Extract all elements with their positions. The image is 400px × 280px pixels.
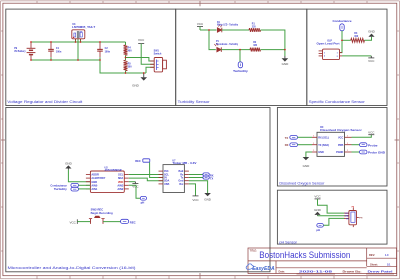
svg-text:GND: GND xyxy=(345,216,350,218)
wire branch down to photodiode row xyxy=(209,30,216,50)
svg-text:BostonHacks Submission: BostonHacks Submission xyxy=(259,250,350,260)
svg-text:2: 2 xyxy=(337,56,338,58)
ground symbol (block 6 right) xyxy=(189,181,212,202)
power flag VCC (block 1) xyxy=(138,38,145,43)
svg-text:GND: GND xyxy=(314,208,322,212)
wire OLP to VCC (block 3) xyxy=(342,55,371,57)
svg-text:GND: GND xyxy=(204,197,212,201)
wire divider tap to switch pin 1 xyxy=(126,58,155,62)
svg-text:USB: USB xyxy=(164,183,169,186)
svg-text:Conductance: Conductance xyxy=(50,183,67,187)
revision REV 1.0 xyxy=(369,253,389,257)
wire node to R3 xyxy=(342,39,351,41)
svg-text:PGND: PGND xyxy=(336,151,343,154)
voltage regulator U3 LM78M05_TA3-T xyxy=(72,23,96,60)
wire VCC to switch pin 2 xyxy=(141,44,154,65)
svg-text:pH: pH xyxy=(316,228,320,232)
svg-text:GND: GND xyxy=(303,164,311,168)
svg-text:Turbidity: Turbidity xyxy=(233,69,248,73)
net flag pH (block 6) xyxy=(129,185,147,204)
ground symbol (block 1) xyxy=(132,73,147,88)
section box: Turbidity Sensor xyxy=(176,9,307,105)
LED D1 White LED - Turbidity xyxy=(217,22,239,33)
wire bottom rail (block 1) xyxy=(31,59,100,61)
svg-text:GND: GND xyxy=(368,29,376,33)
title text BostonHacks Submission xyxy=(250,249,351,260)
wire VCC to pushbutton xyxy=(77,221,90,223)
section box: Voltage Regulator and Divider Circuit xyxy=(6,9,176,105)
connector OLP Open Lead Port xyxy=(317,41,343,60)
svg-text:AIN0: AIN0 xyxy=(91,183,97,187)
svg-text:Probe: Probe xyxy=(368,143,378,147)
svg-text:Open Lead Port: Open Lead Port xyxy=(317,42,340,45)
svg-text:GND: GND xyxy=(282,62,290,66)
battery P9 9V Battery xyxy=(14,42,35,60)
ADC U2 ADS1115IDGSR xyxy=(86,167,129,193)
svg-text:400: 400 xyxy=(128,50,133,53)
svg-text:ALERT/RDY: ALERT/RDY xyxy=(91,176,105,180)
pushbutton SW2 Begin Recording xyxy=(89,209,113,224)
power flag VCC (block 6 bottom, rotated) xyxy=(69,219,77,224)
wire GND to pH connector pin 2 xyxy=(318,215,345,217)
svg-text:REC: REC xyxy=(135,159,141,163)
net flag TX (block 4) xyxy=(285,136,312,140)
section box: pH Sensor xyxy=(277,190,387,244)
net flag RX (block 6) xyxy=(189,173,214,177)
resistor R2 330 xyxy=(250,42,261,51)
switch SW1 xyxy=(150,50,166,72)
wire C2 bottom to lower rail xyxy=(100,60,146,73)
svg-text:SCL: SCL xyxy=(118,173,124,177)
junction dot conductance node xyxy=(341,39,343,41)
svg-text:PRB: PRB xyxy=(338,144,343,147)
power flag VCC (block 4) xyxy=(352,130,376,137)
ground symbol (block 4) xyxy=(303,152,312,168)
ground symbol (block 6 top-left) xyxy=(65,162,73,170)
svg-text:Turbidity Sensor: Turbidity Sensor xyxy=(178,100,211,104)
junction dots (block 2) xyxy=(208,29,286,50)
svg-text:OLP: OLP xyxy=(327,41,332,43)
svg-text:REC: REC xyxy=(130,220,136,224)
wire conductance node down to OLP pin xyxy=(340,40,343,52)
wire top rail 5V/9V (block 1) xyxy=(31,41,126,43)
svg-text:2020-11-08: 2020-11-08 xyxy=(299,269,333,273)
net flag Turbidity xyxy=(233,50,248,73)
svg-text:VCC: VCC xyxy=(314,195,321,199)
svg-text:VCC: VCC xyxy=(138,38,145,42)
svg-text:AIN1: AIN1 xyxy=(91,187,97,191)
svg-text:TITLE:: TITLE: xyxy=(250,249,258,252)
wire VCC to pH connector pin 1 xyxy=(318,199,345,213)
svg-text:Rst: Rst xyxy=(179,183,183,186)
svg-text:SDA: SDA xyxy=(118,176,124,180)
svg-text:Voltage Regulator and Divider: Voltage Regulator and Divider Circuit xyxy=(7,100,82,104)
svg-text:Tinker MB - 3.3V: Tinker MB - 3.3V xyxy=(172,162,197,165)
svg-text:9V Battery: 9V Battery xyxy=(14,50,26,53)
svg-text:300: 300 xyxy=(128,66,133,69)
net flag Conductance (block 3) xyxy=(333,19,352,41)
wire VCC to LED row xyxy=(200,29,217,31)
section box: Microcontroller and Analog-to-Digital Conversion (16-bit) xyxy=(6,108,270,272)
svg-text:Date:: Date: xyxy=(279,269,286,273)
capacitor C1 100n xyxy=(48,42,62,60)
svg-text:REV:: REV: xyxy=(369,253,375,257)
net flag TX (block 6) xyxy=(189,176,214,181)
svg-text:1.0: 1.0 xyxy=(385,253,389,257)
junction dots (block 1) xyxy=(30,41,144,74)
photodiode P1 Photodiode - Turbidity xyxy=(214,41,238,52)
svg-text:Turbidity: Turbidity xyxy=(54,187,68,191)
svg-text:pH Sensor: pH Sensor xyxy=(279,240,297,244)
net flag Conductance (block 6) xyxy=(50,183,90,187)
svg-text:TX: TX xyxy=(210,177,214,181)
section box: Dissolved Oxygen Sensor xyxy=(277,108,387,187)
section box: Specific Conductance Sensor xyxy=(307,9,387,105)
svg-text:TX: TX xyxy=(285,136,289,140)
power flag VCC (block 5) xyxy=(314,195,321,199)
svg-text:GND: GND xyxy=(318,151,324,154)
wire pH flag to connector pin 3 xyxy=(323,218,344,225)
svg-text:Specific Conductance Sensor: Specific Conductance Sensor xyxy=(309,100,366,104)
svg-text:Switch: Switch xyxy=(154,53,162,56)
power flag VCC (block 3, inverted) xyxy=(368,56,375,63)
svg-text:Drawn By:: Drawn By: xyxy=(343,269,362,273)
svg-text:Conductance: Conductance xyxy=(333,19,352,23)
svg-text:Drew Patel: Drew Patel xyxy=(368,269,394,273)
net flag REC (to microcontroller) xyxy=(135,159,150,163)
wire photodiode to R2 xyxy=(221,49,250,51)
resistor R1 220 xyxy=(249,24,261,32)
net flag Turbidity (block 6) xyxy=(54,187,91,191)
svg-text:VCC: VCC xyxy=(69,220,76,224)
svg-text:1: 1 xyxy=(337,52,338,54)
ground symbol (block 5) xyxy=(314,208,322,216)
wire SCL (U2 to U7) xyxy=(129,174,163,176)
svg-text:2: 2 xyxy=(324,55,325,57)
svg-text:RX: RX xyxy=(285,143,289,147)
resistor R5 300 (lower divider) xyxy=(124,58,133,74)
resistor R4 400 (upper divider) xyxy=(124,42,133,58)
resistor R3 300 xyxy=(351,33,365,42)
wire LED to R1 xyxy=(222,29,249,31)
svg-text:GND: GND xyxy=(91,180,97,184)
svg-text:100n: 100n xyxy=(56,51,62,54)
wire R3 to ground stub xyxy=(365,37,372,41)
svg-text:White LED - Turbidity: White LED - Turbidity xyxy=(217,24,239,27)
wire SDA (U2 to U7) xyxy=(129,178,163,181)
svg-text:Dissolved Oxygen Sensor: Dissolved Oxygen Sensor xyxy=(279,181,325,185)
power flag VCC (block 6 right, inverted) xyxy=(189,184,200,202)
svg-text:Begin Recording: Begin Recording xyxy=(91,213,114,215)
capacitor C2 100n xyxy=(97,42,110,60)
svg-text:VCC: VCC xyxy=(368,130,375,134)
svg-text:VCC: VCC xyxy=(338,136,343,139)
power flag VCC (block 2) xyxy=(197,22,204,30)
svg-text:pH: pH xyxy=(141,201,145,205)
net flag REC xyxy=(121,219,136,224)
svg-text:TX (SDA): TX (SDA) xyxy=(318,144,329,147)
svg-text:1: 1 xyxy=(324,52,325,54)
wire lower rail to switch pin 3 xyxy=(146,67,154,73)
svg-text:Sheet:: Sheet: xyxy=(370,262,378,266)
svg-text:100n: 100n xyxy=(105,51,111,54)
wire GND down to ADC GND pin xyxy=(68,170,90,182)
svg-text:GND: GND xyxy=(65,162,73,166)
svg-text:RX (SCL): RX (SCL) xyxy=(318,136,329,139)
svg-text:VCC: VCC xyxy=(368,59,375,63)
sheet 1/1 xyxy=(370,262,391,266)
microcontroller U7 Tinker MB - 3.3V xyxy=(159,159,197,192)
ground symbol (block 2) xyxy=(282,56,290,66)
ground symbol (block 3, inverted) xyxy=(368,29,376,36)
svg-text:LM78M05_TA3-T: LM78M05_TA3-T xyxy=(72,26,96,29)
net flag pH (block 5) xyxy=(316,224,323,232)
svg-text:AIN2: AIN2 xyxy=(117,187,123,191)
svg-text:VCC: VCC xyxy=(192,198,199,202)
svg-text:VCC: VCC xyxy=(197,22,204,26)
svg-text:ADDR: ADDR xyxy=(91,173,99,177)
svg-text:EasyEDA: EasyEDA xyxy=(252,266,275,272)
net flag Probe xyxy=(352,143,379,148)
svg-text:VDD: VDD xyxy=(118,180,124,184)
svg-text:AIN3: AIN3 xyxy=(117,183,123,187)
wire pushbutton to REC flag xyxy=(103,221,121,223)
svg-text:SW2-REC: SW2-REC xyxy=(91,209,104,211)
pH probe connector P4 xyxy=(344,205,363,227)
svg-text:ADS1115IDGSR: ADS1115IDGSR xyxy=(105,169,122,172)
wire REC flag to Tinker pin xyxy=(150,162,163,177)
svg-text:Photodiode - Turbidity: Photodiode - Turbidity xyxy=(216,43,239,46)
svg-text:Probe GND: Probe GND xyxy=(368,151,385,155)
svg-text:VCC: VCC xyxy=(345,213,350,215)
date and drawn by xyxy=(279,269,394,273)
IC D0 Dissolved Oxygen Sensor xyxy=(312,126,362,157)
svg-text:Dissolved Oxygen Sensor: Dissolved Oxygen Sensor xyxy=(320,129,362,132)
net flag Probe GND xyxy=(352,150,386,155)
power flag VCC at U2 VDD xyxy=(129,182,140,189)
title block xyxy=(248,248,397,274)
wire R1 to right drop xyxy=(261,30,285,56)
svg-text:1/1: 1/1 xyxy=(387,262,391,266)
svg-text:Microcontroller and Analog-to-: Microcontroller and Analog-to-Digital Co… xyxy=(8,266,136,270)
svg-text:GND: GND xyxy=(132,84,140,88)
svg-text:PH: PH xyxy=(359,218,362,220)
net flag RX (block 4) xyxy=(285,143,312,147)
EasyEDA logo xyxy=(246,264,275,272)
wire R2 to right drop xyxy=(261,49,285,51)
